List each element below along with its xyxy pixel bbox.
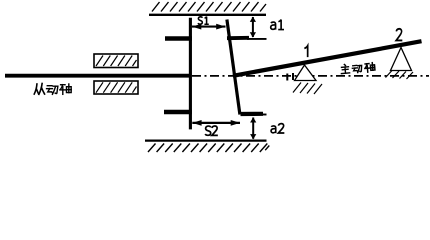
tick marks near centerline bbox=[287, 73, 293, 81]
bottom wall hatching bbox=[148, 144, 269, 153]
dimension S2 line bbox=[192, 122, 240, 124]
driving shaft (inclined) bbox=[233, 41, 422, 76]
left coupling flange bottom arm bbox=[164, 110, 192, 115]
support triangle 2 bbox=[391, 48, 412, 71]
glyph cong bbox=[34, 83, 44, 94]
label: driving shaft (zhudongzhou) hand-drawn glyphs, tilted bbox=[341, 62, 375, 75]
dimension a2 line bbox=[252, 118, 254, 139]
bearing block lower bbox=[94, 81, 138, 94]
a1 bottom arrowhead bbox=[250, 32, 256, 37]
right coupling flange bottom arm bbox=[241, 112, 264, 116]
label a1 bbox=[271, 22, 276, 29]
left coupling flange spine bbox=[189, 18, 192, 130]
dimension a1 line bbox=[252, 17, 254, 37]
support triangle 2 hatching bbox=[386, 71, 414, 80]
a2 top arrowhead bbox=[250, 117, 256, 122]
S1 right arrowhead bbox=[216, 24, 225, 30]
glyph dong2 bbox=[352, 65, 362, 73]
right coupling flange top arm bbox=[227, 36, 249, 40]
top wall hatching bbox=[152, 2, 266, 12]
bearing block upper bbox=[94, 54, 138, 68]
left coupling flange top arm bbox=[165, 36, 192, 41]
bottom wall line bbox=[145, 140, 267, 142]
glyph zhu bbox=[341, 64, 350, 74]
top wall line bbox=[149, 14, 266, 16]
dimension S1 line bbox=[192, 26, 226, 28]
label S1 bbox=[198, 17, 202, 24]
S2 left arrowhead bbox=[192, 120, 201, 126]
center dash-dot line bbox=[192, 75, 429, 77]
a1 top arrowhead bbox=[250, 17, 256, 22]
label a2 bbox=[271, 126, 276, 133]
right coupling flange spine (tilted) bbox=[227, 20, 240, 115]
right flange top extension line bbox=[247, 38, 267, 40]
right flange bottom extension line bbox=[258, 114, 267, 116]
a2 bottom arrowhead bbox=[250, 134, 256, 139]
label: driven shaft (congdongzhou) hand-drawn glyphs bbox=[34, 83, 71, 94]
label S2 bbox=[205, 126, 211, 135]
support triangle 1 bbox=[295, 65, 317, 81]
glyph dong bbox=[47, 86, 58, 95]
glyph zhou2 bbox=[364, 62, 375, 72]
glyph zhou bbox=[60, 84, 71, 94]
measuring point label 2 bbox=[396, 29, 402, 41]
driven shaft (left horizontal shaft) bbox=[5, 74, 190, 78]
support triangle 1 hatching bbox=[293, 83, 322, 95]
S1 left arrowhead bbox=[192, 24, 201, 30]
S2 right arrowhead bbox=[231, 120, 240, 126]
measuring point label 1 bbox=[304, 46, 307, 57]
